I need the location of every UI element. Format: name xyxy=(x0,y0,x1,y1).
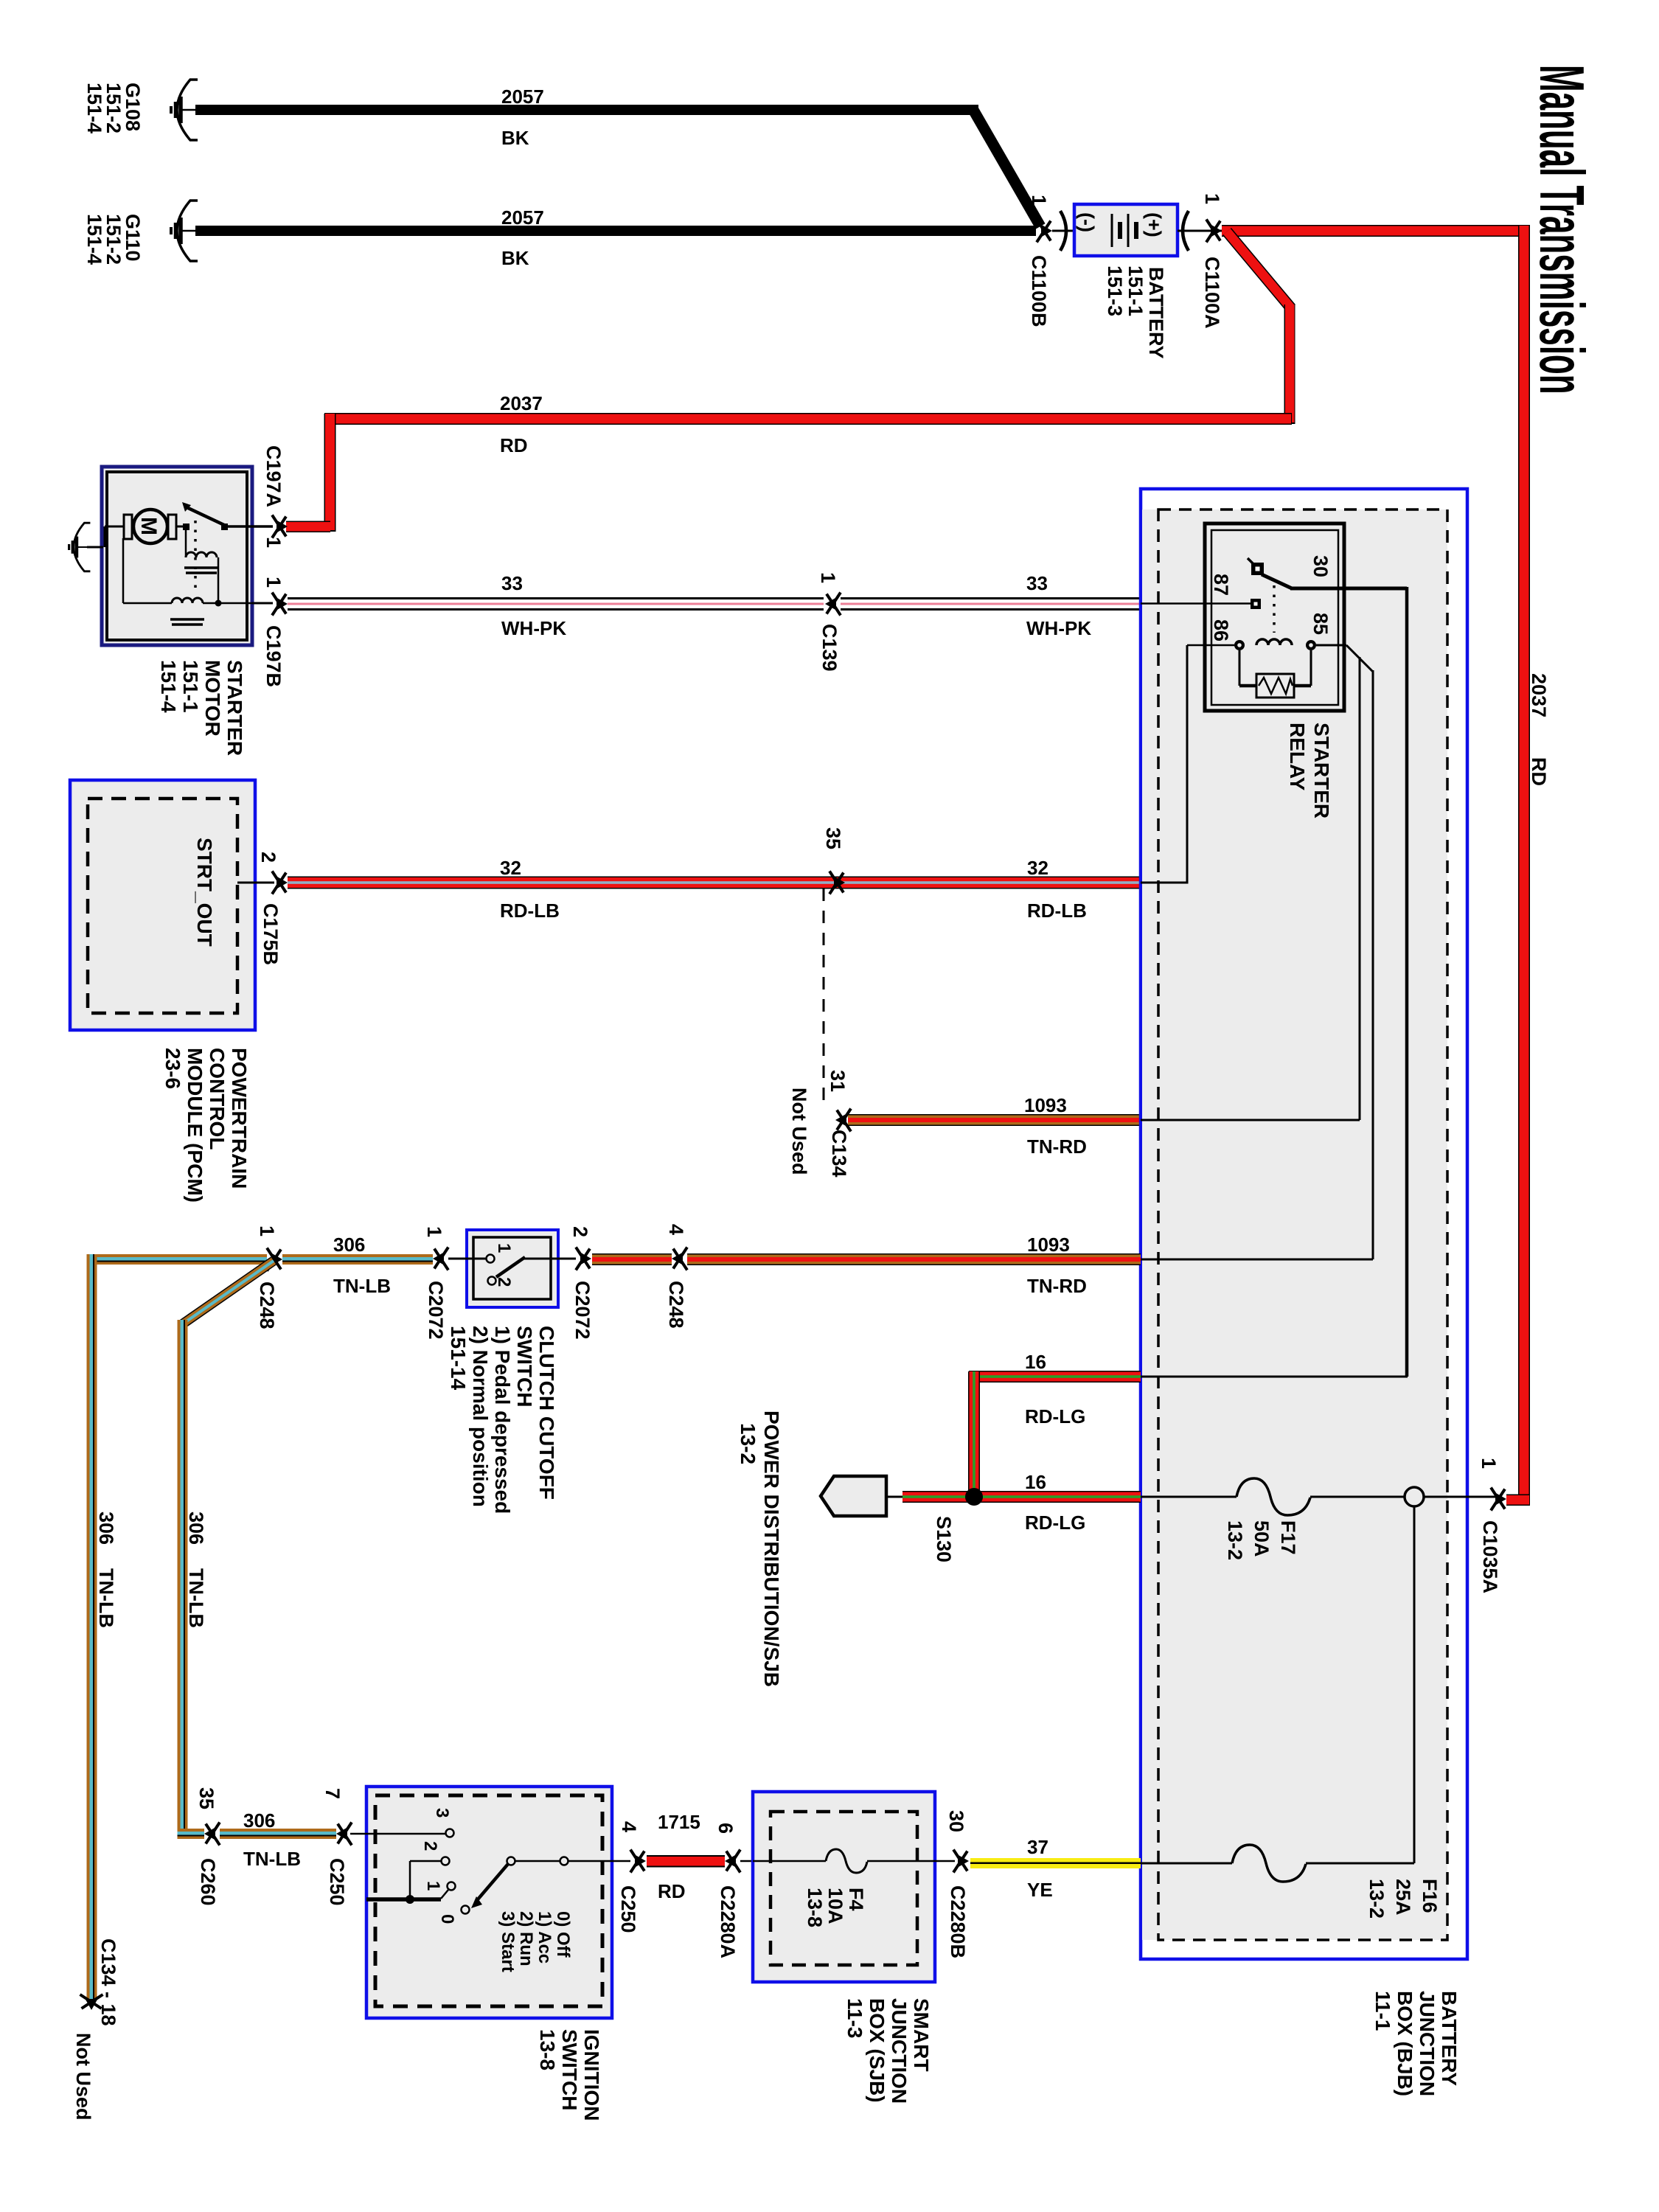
wire 32 RD-LB left segment xyxy=(288,857,845,922)
svg-text:2057: 2057 xyxy=(501,206,544,229)
svg-text:35: 35 xyxy=(195,1787,218,1809)
connector C248 pin 1 xyxy=(256,1225,282,1329)
svg-text:86: 86 xyxy=(1210,619,1232,641)
svg-text:11-3: 11-3 xyxy=(844,1998,866,2039)
wire 33 WH-PK left segment xyxy=(288,572,824,639)
svg-text:0: 0 xyxy=(437,1914,457,1924)
svg-text:4: 4 xyxy=(618,1821,640,1832)
svg-text:Manual Transmission: Manual Transmission xyxy=(1526,65,1596,394)
svg-text:POWER DISTRIBUTION/SJB: POWER DISTRIBUTION/SJB xyxy=(760,1411,783,1687)
svg-text:POWERTRAIN: POWERTRAIN xyxy=(228,1048,251,1189)
svg-text:C1100A: C1100A xyxy=(1201,257,1223,329)
svg-text:13-2: 13-2 xyxy=(737,1423,759,1464)
svg-text:STARTER: STARTER xyxy=(223,660,246,756)
svg-text:1) Acc: 1) Acc xyxy=(535,1911,554,1964)
wire 16 RD-LG vertical at S130 xyxy=(968,1371,980,1497)
svg-text:1: 1 xyxy=(817,572,839,583)
svg-text:10A: 10A xyxy=(824,1888,846,1924)
connector C1035A pin 1 xyxy=(1478,1458,1506,1593)
svg-text:306: 306 xyxy=(95,1512,117,1545)
svg-text:151-1: 151-1 xyxy=(179,660,202,713)
svg-text:1: 1 xyxy=(1478,1458,1500,1469)
svg-text:TN-LB: TN-LB xyxy=(185,1568,207,1628)
svg-text:0) Off: 0) Off xyxy=(553,1911,573,1958)
svg-text:13-2: 13-2 xyxy=(1224,1520,1246,1560)
svg-text:1: 1 xyxy=(256,1225,278,1237)
svg-text:306: 306 xyxy=(185,1512,207,1545)
svg-text:C2280B: C2280B xyxy=(947,1885,969,1958)
svg-text:2: 2 xyxy=(569,1226,591,1237)
svg-text:151-3: 151-3 xyxy=(1104,265,1126,316)
svg-text:WH-PK: WH-PK xyxy=(1026,617,1091,639)
splice junction 35 on wire 32 xyxy=(822,827,845,894)
svg-text:6: 6 xyxy=(714,1823,737,1834)
svg-text:30: 30 xyxy=(1310,555,1332,577)
svg-text:1) Pedal depressed: 1) Pedal depressed xyxy=(491,1326,514,1514)
relay pin 30 wire to fuse F17 feed xyxy=(1141,587,1408,1377)
BJB feed terminal circle xyxy=(1405,1487,1495,1863)
svg-text:Not Used: Not Used xyxy=(788,1088,810,1175)
svg-text:BATTERY: BATTERY xyxy=(1145,267,1167,359)
svg-text:2037: 2037 xyxy=(1528,673,1550,717)
svg-text:(+): (+) xyxy=(1143,212,1165,237)
connector C175B pin 2 at PCM xyxy=(237,852,288,965)
svg-text:306: 306 xyxy=(333,1234,365,1256)
svg-text:MODULE (PCM): MODULE (PCM) xyxy=(184,1048,206,1203)
svg-text:BATTERY: BATTERY xyxy=(1438,1991,1461,2086)
svg-text:SWITCH: SWITCH xyxy=(558,2029,581,2110)
svg-text:11-1: 11-1 xyxy=(1371,1991,1394,2031)
svg-text:2: 2 xyxy=(257,852,279,863)
svg-text:CLUTCH CUTOFF: CLUTCH CUTOFF xyxy=(535,1326,558,1500)
svg-text:16: 16 xyxy=(1025,1471,1046,1493)
svg-text:STRT_OUT: STRT_OUT xyxy=(193,838,216,947)
starter motor box xyxy=(102,467,252,645)
connector C139 pin 1 xyxy=(817,572,841,672)
ground G108 xyxy=(83,80,198,140)
splice S130 xyxy=(933,1488,983,1562)
svg-text:2057: 2057 xyxy=(501,86,544,108)
svg-text:16: 16 xyxy=(1025,1351,1046,1373)
wire 2037 RD diagonal branch to starter motor xyxy=(286,232,1295,532)
svg-text:C250: C250 xyxy=(617,1885,639,1933)
svg-text:31: 31 xyxy=(827,1070,849,1092)
clutch cutoff switch box xyxy=(447,1230,558,1514)
wire 1093 TN-RD upper segment xyxy=(848,1094,1141,1158)
connector C134 pin 31 Not Used xyxy=(788,1070,851,1178)
svg-text:151-4: 151-4 xyxy=(83,83,105,133)
svg-text:50A: 50A xyxy=(1251,1520,1273,1557)
svg-text:JUNCTION: JUNCTION xyxy=(1416,1991,1439,2096)
relay pin 85 wires to 1093 xyxy=(1141,645,1373,1259)
wire 1093 TN-RD lower segment xyxy=(687,1234,1141,1297)
wire 16 RD-LG lower segment xyxy=(902,1471,1141,1534)
svg-text:87: 87 xyxy=(1210,574,1232,596)
ground at starter motor xyxy=(69,523,103,571)
svg-text:C1035A: C1035A xyxy=(1479,1520,1501,1593)
svg-text:3) Start: 3) Start xyxy=(498,1911,518,1972)
PCM powertrain control module box xyxy=(70,780,255,1203)
svg-text:37: 37 xyxy=(1027,1836,1048,1858)
svg-text:33: 33 xyxy=(501,572,523,594)
wire 2057 BK from G110 to battery xyxy=(195,206,1036,269)
svg-text:C139: C139 xyxy=(818,624,841,672)
svg-text:30: 30 xyxy=(945,1810,967,1832)
svg-text:C2072: C2072 xyxy=(425,1281,447,1340)
svg-text:RD-LG: RD-LG xyxy=(1025,1405,1085,1427)
svg-text:YE: YE xyxy=(1027,1879,1053,1901)
svg-text:1: 1 xyxy=(262,577,285,588)
wire 1715 RD xyxy=(647,1811,725,1902)
svg-text:C134 - 18: C134 - 18 xyxy=(97,1938,119,2026)
svg-text:JUNCTION: JUNCTION xyxy=(888,1998,911,2104)
starter solenoid coils xyxy=(123,529,252,625)
svg-text:C248: C248 xyxy=(665,1281,687,1329)
connector C2072 pin 1 xyxy=(423,1226,448,1340)
wire 1093 TN-RD clutch to C248 xyxy=(592,1253,672,1265)
svg-text:1715: 1715 xyxy=(658,1811,700,1833)
svg-text:M: M xyxy=(136,517,161,535)
svg-text:151-4: 151-4 xyxy=(83,214,105,265)
svg-text:1093: 1093 xyxy=(1024,1094,1067,1116)
svg-text:2) Run: 2) Run xyxy=(516,1911,536,1966)
svg-text:2: 2 xyxy=(420,1841,440,1851)
svg-text:7: 7 xyxy=(321,1788,344,1799)
svg-text:BOX (BJB): BOX (BJB) xyxy=(1394,1991,1416,2096)
wire 306 TN-LB diagonal branch xyxy=(182,1261,274,1324)
svg-text:BK: BK xyxy=(501,247,529,269)
svg-text:RD-LB: RD-LB xyxy=(500,900,560,922)
fuse F16 25A xyxy=(1141,1845,1441,1919)
svg-text:RD: RD xyxy=(1528,757,1550,786)
relay pin 87 xyxy=(1141,574,1261,609)
svg-text:C2280A: C2280A xyxy=(717,1885,739,1958)
svg-text:C1100B: C1100B xyxy=(1028,255,1050,327)
svg-text:32: 32 xyxy=(500,857,521,879)
wire 306 TN-LB second vertical xyxy=(178,1320,208,1834)
svg-text:32: 32 xyxy=(1027,857,1048,879)
svg-text:C175B: C175B xyxy=(260,903,282,965)
svg-text:13-2: 13-2 xyxy=(1366,1879,1388,1919)
svg-text:1: 1 xyxy=(423,1881,443,1891)
starter solenoid switch xyxy=(176,502,252,590)
connector C260 pin 35 xyxy=(195,1787,220,1906)
battery 151-1 151-3 xyxy=(1074,204,1178,359)
wire 16 RD-LG upper segment xyxy=(969,1351,1141,1427)
starter relay box xyxy=(1205,524,1344,818)
connector C2072 pin 2 xyxy=(569,1226,594,1340)
connector C2280B pin 30 xyxy=(945,1810,969,1958)
svg-text:MOTOR: MOTOR xyxy=(201,660,224,737)
svg-text:C197B: C197B xyxy=(262,625,285,687)
fuse F17 50A xyxy=(1141,1478,1405,1560)
svg-text:SMART: SMART xyxy=(910,1998,933,2072)
svg-text:TN-LB: TN-LB xyxy=(333,1275,391,1297)
svg-text:2: 2 xyxy=(494,1277,514,1287)
connector C250 pin 4 xyxy=(617,1821,646,1933)
fuse F4 10A xyxy=(753,1849,955,1927)
svg-text:85: 85 xyxy=(1310,613,1332,635)
svg-text:35: 35 xyxy=(822,827,844,849)
clutch switch contacts xyxy=(448,1243,576,1287)
svg-text:TN-RD: TN-RD xyxy=(1027,1135,1087,1158)
svg-text:S130: S130 xyxy=(933,1516,955,1562)
svg-text:C2072: C2072 xyxy=(571,1281,594,1340)
wire 306 TN-LB bend to C260 xyxy=(178,1829,205,1839)
ground G110 xyxy=(83,201,198,265)
svg-text:TN-LB: TN-LB xyxy=(243,1848,301,1870)
svg-text:13-8: 13-8 xyxy=(804,1888,826,1927)
svg-text:Not Used: Not Used xyxy=(72,2033,94,2121)
svg-text:23-6: 23-6 xyxy=(161,1048,184,1089)
wire 33 WH-PK right segment xyxy=(841,572,1141,639)
svg-text:RD-LB: RD-LB xyxy=(1027,900,1087,922)
svg-text:1: 1 xyxy=(262,537,285,548)
battery junction box BJB xyxy=(1141,489,1467,2096)
svg-text:BK: BK xyxy=(501,127,529,149)
svg-text:151-4: 151-4 xyxy=(157,660,180,713)
connector C197B pin 1 xyxy=(252,577,288,687)
svg-text:2) Normal position: 2) Normal position xyxy=(469,1326,492,1507)
svg-text:C197A: C197A xyxy=(262,445,285,507)
connector C197A pin 1 xyxy=(252,445,288,548)
connector C2280A pin 6 xyxy=(714,1823,753,1958)
smart junction box SJB xyxy=(753,1792,935,2104)
svg-text:RD-LG: RD-LG xyxy=(1025,1512,1085,1534)
dashed drop line from junction 35 to C134 xyxy=(823,888,825,1110)
ignition switch rotor xyxy=(471,1857,630,1972)
svg-text:RELAY: RELAY xyxy=(1286,723,1309,791)
wire 2037 RD battery to BJB right side xyxy=(1222,225,1550,1506)
svg-text:C250: C250 xyxy=(326,1858,348,1906)
svg-text:C134: C134 xyxy=(828,1130,850,1178)
svg-text:IGNITION: IGNITION xyxy=(580,2029,603,2121)
svg-text:F17: F17 xyxy=(1277,1520,1299,1555)
svg-text:TN-RD: TN-RD xyxy=(1027,1275,1087,1297)
wire 32 RD-LB right segment xyxy=(845,857,1141,922)
svg-text:25A: 25A xyxy=(1392,1879,1414,1916)
svg-text:4: 4 xyxy=(665,1224,687,1235)
svg-text:STARTER: STARTER xyxy=(1310,723,1333,818)
ignition switch contacts xyxy=(350,1808,470,1924)
svg-text:1093: 1093 xyxy=(1027,1234,1070,1256)
svg-text:1: 1 xyxy=(494,1243,514,1253)
svg-text:CONTROL: CONTROL xyxy=(206,1048,229,1150)
wire 306 TN-LB C260 to C250 xyxy=(220,1809,336,1870)
svg-text:151-1: 151-1 xyxy=(1124,265,1147,316)
ignition switch box xyxy=(366,1787,612,2121)
svg-text:13-8: 13-8 xyxy=(536,2029,559,2070)
svg-text:BOX (SJB): BOX (SJB) xyxy=(866,1998,888,2103)
relay pin 30 blade xyxy=(1248,555,1332,633)
svg-text:33: 33 xyxy=(1026,572,1048,594)
connector C248 pin 4 xyxy=(665,1224,687,1329)
svg-text:151-14: 151-14 xyxy=(447,1326,470,1391)
svg-text:3: 3 xyxy=(432,1808,452,1818)
relay coil pins 86 85 xyxy=(1141,613,1332,884)
svg-text:C260: C260 xyxy=(197,1858,219,1906)
svg-text:1: 1 xyxy=(1201,193,1223,204)
motor M inside starter xyxy=(105,509,176,547)
svg-text:306: 306 xyxy=(243,1809,275,1832)
svg-text:(-): (-) xyxy=(1076,212,1098,232)
svg-text:F4: F4 xyxy=(845,1888,867,1911)
wire 37 YE xyxy=(970,1836,1141,1901)
connector C250 pin 7 xyxy=(321,1788,352,1906)
power distribution SJB pentagon xyxy=(737,1411,904,1687)
connector C134 pin 18 Not Used xyxy=(72,1938,119,2121)
svg-text:SWITCH: SWITCH xyxy=(513,1326,536,1407)
svg-text:RD: RD xyxy=(500,434,528,456)
relay resistor xyxy=(1239,650,1311,698)
svg-text:RD: RD xyxy=(658,1880,686,1902)
svg-text:WH-PK: WH-PK xyxy=(501,617,566,639)
svg-text:1: 1 xyxy=(1028,195,1050,206)
starter motor labels xyxy=(157,660,246,756)
svg-text:F16: F16 xyxy=(1419,1879,1441,1913)
svg-text:1: 1 xyxy=(423,1226,445,1237)
connector C1100A pin 1 xyxy=(1178,193,1223,329)
wire 2057 BK from G108 to battery xyxy=(195,86,1040,226)
wire 306 TN-LB horizontal xyxy=(87,1234,434,1297)
wire 306 TN-LB left vertical to C134-18 xyxy=(87,1254,118,2000)
svg-text:C248: C248 xyxy=(256,1281,278,1329)
svg-text:2037: 2037 xyxy=(500,392,543,414)
svg-text:TN-LB: TN-LB xyxy=(95,1568,117,1628)
connector C1100B pin 1 xyxy=(1028,195,1074,327)
